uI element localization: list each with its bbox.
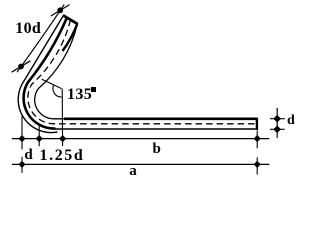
label d (bar thickness) bbox=[287, 114, 295, 128]
dimension terminator diamond at x=22 on d/b line bbox=[18, 135, 25, 142]
bottom edge of straight run bbox=[54, 128, 257, 130]
extension stub from bar bottom edge bbox=[270, 128, 285, 130]
degree mark square for 135 bbox=[91, 87, 96, 92]
dimension line for a bbox=[12, 163, 269, 165]
label a bbox=[129, 164, 137, 179]
dimension terminator diamond at left end of a line bbox=[18, 161, 25, 168]
dimension terminator diamond at top of right d dimension bbox=[273, 115, 281, 123]
10d dimension tick at tip end bbox=[51, 5, 70, 16]
label 10d bbox=[15, 21, 41, 37]
dimension terminator diamond at right end of b line bbox=[254, 135, 261, 142]
dimension terminator diamond at bottom of right d dimension bbox=[273, 126, 281, 134]
135-degree angle vertical leg / extension down to 1.25d dot bbox=[61, 89, 63, 146]
dimension terminator diamond at x=39 on d/b line bbox=[36, 135, 43, 142]
extension line at d / 1.25d boundary bbox=[38, 126, 40, 147]
extension line at right end of bar bbox=[256, 131, 258, 149]
dashed centreline axis of bar bbox=[28, 20, 257, 124]
10d dimension tick at bend end bbox=[12, 61, 31, 72]
10d dimension line bbox=[17, 5, 64, 73]
label b bbox=[153, 142, 161, 157]
thick emphasis line just inside outer edge (incline + bend) bbox=[24, 18, 67, 129]
extension stub from bar top edge bbox=[270, 118, 285, 120]
bar end cap at tip of hook bbox=[63, 15, 78, 24]
label 135 bbox=[67, 87, 92, 103]
extension line at left edge of hook bbox=[21, 116, 23, 150]
vertical dimension line for bar thickness d bbox=[276, 108, 278, 138]
135-degree angle arc bbox=[53, 85, 62, 97]
label 1.25d bbox=[40, 148, 85, 164]
10d dimension dot at tip end bbox=[57, 7, 63, 13]
bar inner edge: incline right edge + inner bend curve + top edge of straight run bbox=[35, 24, 257, 119]
dimension terminator diamond at right end of a line bbox=[254, 161, 261, 168]
135-degree angle leg perpendicular to incline bbox=[42, 79, 62, 88]
label d (hook dimension) bbox=[24, 148, 32, 163]
10d dimension dot at bend end bbox=[18, 64, 24, 70]
dimension terminator diamond at x=63 on d/b line bbox=[59, 135, 66, 142]
bar end cap at right end bbox=[256, 118, 258, 130]
thick upper portion of incline right edge near cap bbox=[63, 24, 78, 51]
thick emphasis line along top edge of straight run bbox=[64, 118, 257, 121]
dimension line for d, 1.25d and b bbox=[12, 138, 269, 140]
bar outer edge: incline left edge + outer bend curve + bottom edge of straight run bbox=[18, 16, 63, 133]
